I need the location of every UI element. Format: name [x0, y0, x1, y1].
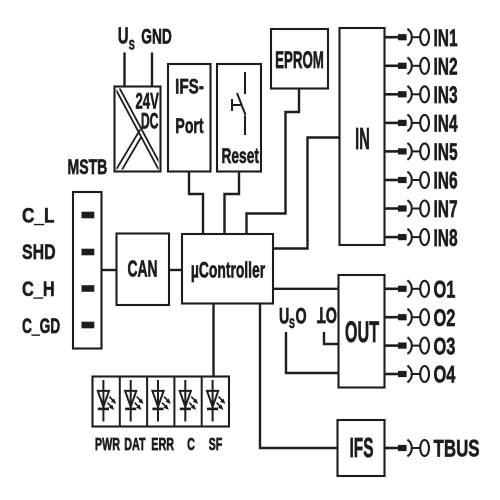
LED ERR — [152, 380, 170, 422]
wire USO to OUT — [286, 332, 339, 373]
svg-text:IN: IN — [355, 122, 370, 156]
LED PWR — [98, 380, 116, 422]
svg-text:O1: O1 — [434, 276, 456, 303]
block EPROM — [271, 29, 328, 89]
svg-text:µController: µController — [191, 257, 265, 282]
terminal IN2 — [385, 54, 458, 80]
terminal IN6 — [385, 168, 458, 194]
wire US lead — [123, 53, 125, 87]
block IFS — [338, 420, 385, 476]
svg-text:IN5: IN5 — [434, 140, 458, 166]
svg-text:PWR: PWR — [95, 436, 121, 455]
svg-text:IFS-: IFS- — [175, 74, 204, 98]
terminal O3 — [385, 333, 456, 360]
terminal IN3 — [385, 83, 458, 109]
svg-text:IN8: IN8 — [434, 226, 458, 252]
wire uController to OUT — [273, 288, 339, 290]
svg-text:O4: O4 — [434, 362, 456, 389]
LED block — [93, 377, 230, 427]
LED C — [180, 380, 198, 422]
connector MSTB — [68, 155, 108, 348]
block IN — [340, 28, 385, 245]
svg-text:DC: DC — [141, 109, 159, 134]
net US label — [118, 23, 135, 53]
svg-text:TBUS: TBUS — [434, 436, 480, 463]
svg-text:MSTB: MSTB — [68, 155, 108, 178]
svg-text:ERR: ERR — [151, 436, 174, 455]
svg-text:SF: SF — [209, 436, 223, 455]
svg-text:U: U — [279, 303, 289, 328]
svg-text:IN6: IN6 — [434, 168, 458, 194]
wire CAN to uController — [169, 269, 182, 271]
svg-text:C: C — [187, 436, 195, 455]
svg-text:OUT: OUT — [345, 316, 379, 350]
block CAN — [117, 234, 170, 306]
svg-text:S: S — [289, 317, 295, 331]
svg-text:IN1: IN1 — [434, 26, 458, 52]
terminal O4 — [385, 362, 456, 389]
terminal IN1 — [385, 26, 458, 52]
svg-text:SHD: SHD — [22, 241, 56, 265]
terminal IN8 — [385, 226, 458, 252]
svg-text:EPROM: EPROM — [275, 47, 324, 74]
terminal O2 — [385, 305, 456, 332]
block IFS-Port — [168, 64, 211, 172]
wire IFS-Port to uController — [189, 172, 203, 235]
svg-text:IN4: IN4 — [434, 111, 459, 137]
wire uController to IFS — [260, 304, 338, 449]
terminal IN4 — [385, 111, 459, 137]
LED SF — [207, 380, 225, 422]
svg-text:IN3: IN3 — [434, 83, 458, 109]
pin C_H — [82, 285, 95, 292]
svg-text:Port: Port — [175, 114, 203, 138]
block OUT — [339, 275, 385, 388]
net OT label (rotated) — [317, 303, 337, 328]
svg-text:GND: GND — [141, 24, 172, 48]
svg-text:O: O — [296, 303, 307, 328]
block uController — [182, 234, 273, 304]
net USO label — [279, 303, 307, 331]
svg-text:S: S — [129, 36, 135, 53]
svg-text:C_H: C_H — [22, 278, 55, 302]
LED DAT — [125, 380, 143, 422]
svg-text:IFS: IFS — [350, 432, 374, 463]
wire GND lead — [151, 53, 153, 87]
svg-text:O3: O3 — [434, 333, 456, 360]
pin C_GD — [82, 322, 95, 329]
svg-text:U: U — [118, 23, 129, 49]
wire Reset to uController — [225, 172, 240, 235]
pin SHD — [82, 249, 95, 256]
terminal TBUS — [385, 436, 480, 463]
svg-text:C_GD: C_GD — [22, 314, 60, 338]
wire EPROM to uController — [247, 89, 300, 235]
svg-text:O2: O2 — [434, 305, 456, 332]
svg-text:IN7: IN7 — [434, 197, 458, 223]
terminal IN7 — [385, 197, 458, 223]
wire MSTB to CAN — [102, 269, 117, 271]
pushbutton Reset — [217, 64, 261, 172]
terminal O1 — [385, 276, 456, 303]
wire uController to LED block — [212, 304, 214, 377]
power supply 24V DC — [114, 86, 165, 174]
svg-text:IN2: IN2 — [434, 54, 458, 80]
svg-text:DAT: DAT — [124, 436, 145, 455]
pin C_L — [82, 212, 95, 219]
svg-text:OT: OT — [317, 303, 337, 328]
wire uController to IN — [273, 138, 340, 249]
svg-text:C_L: C_L — [22, 204, 55, 228]
svg-text:Reset: Reset — [221, 144, 258, 168]
wire OT to OUT — [324, 332, 339, 344]
svg-text:CAN: CAN — [127, 257, 157, 283]
terminal IN5 — [385, 140, 458, 166]
